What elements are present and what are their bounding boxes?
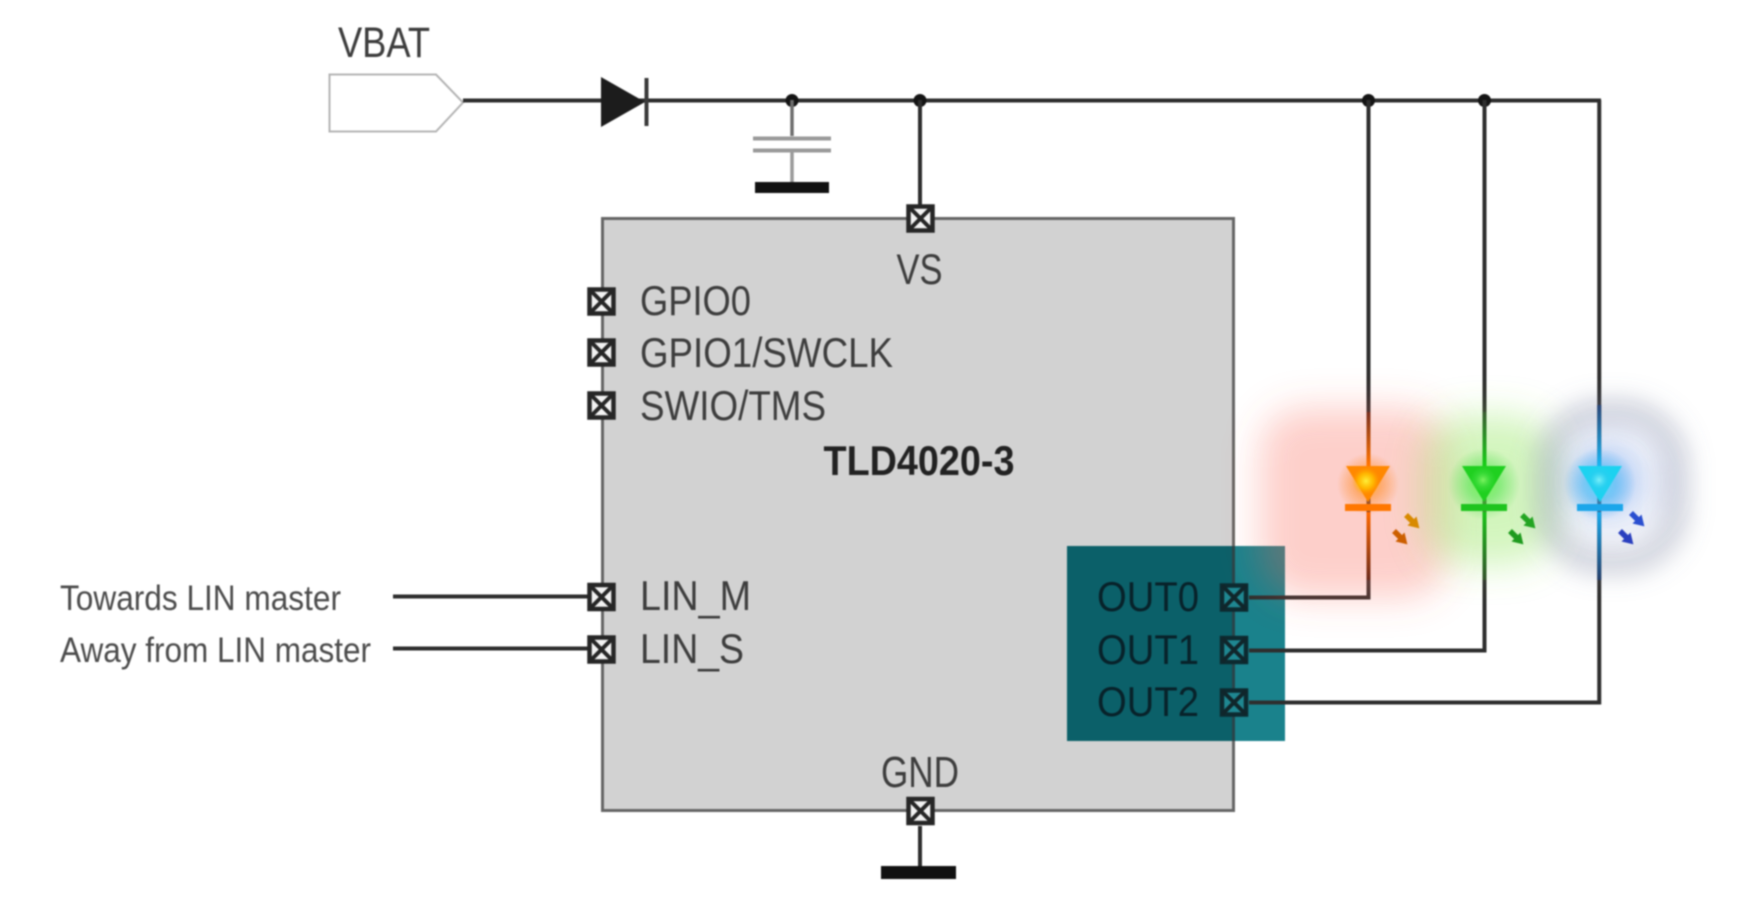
- halo green LED: [1448, 448, 1520, 520]
- glow blue inner wash: [1548, 417, 1676, 545]
- wire: LIN_S lead: [393, 647, 588, 651]
- junction: LED0 tap: [1362, 94, 1375, 107]
- LED D_red cathode bar: [1345, 504, 1391, 511]
- svg-text:OUT1: OUT1: [1097, 626, 1199, 673]
- pin VS: [909, 207, 933, 231]
- ground bar (GND pin): [881, 866, 956, 879]
- LED D_blue triangle: [1578, 466, 1622, 502]
- svg-text:GND: GND: [881, 748, 959, 797]
- LED D_red emission arrow 2: [1390, 527, 1411, 548]
- hot wire above green LED: [1483, 412, 1487, 466]
- OUT highlight box right strip over white: [1235, 546, 1285, 741]
- glow blue center: [1572, 447, 1640, 515]
- hot wire below blue LED: [1597, 512, 1601, 580]
- wire: main VBAT bus: [463, 99, 1601, 103]
- svg-text:VS: VS: [897, 246, 943, 294]
- pin GPIO1/SWCLK: [590, 341, 614, 365]
- glow blue outer ring: [1548, 412, 1676, 562]
- glow red: [1260, 408, 1448, 598]
- pin GPIO0: [590, 290, 614, 314]
- svg-text:LIN_S: LIN_S: [640, 625, 744, 672]
- glow green: [1424, 415, 1554, 565]
- svg-text:OUT2: OUT2: [1097, 678, 1199, 725]
- wire: LIN_M lead: [393, 595, 588, 599]
- pin OUT1: [1222, 638, 1246, 662]
- LED D_red hot center: [1352, 467, 1380, 495]
- svg-text:LIN_M: LIN_M: [640, 572, 751, 619]
- LED D_green cathode bar: [1461, 504, 1507, 511]
- pin LIN_M: [590, 585, 614, 609]
- LED D_blue emission arrow 2: [1616, 527, 1637, 548]
- diode D1 cathode bar: [645, 78, 649, 126]
- ground bar (capacitor): [755, 182, 829, 193]
- junction: VS tap: [914, 94, 927, 107]
- LED D_red emission arrow 1: [1402, 511, 1423, 532]
- LED D_green hot center: [1470, 467, 1496, 493]
- wire: capacitor stub lower: [790, 152, 794, 182]
- hot wire below green LED: [1483, 512, 1487, 580]
- hot wire below red LED: [1367, 512, 1371, 580]
- pin OUT0: [1222, 586, 1246, 610]
- junction: capacitor tap: [786, 94, 799, 107]
- hot wire above blue LED: [1597, 405, 1601, 466]
- IC right border segment crossing teal box: [1232, 546, 1235, 741]
- LED D_blue cathode bar: [1577, 504, 1623, 511]
- svg-text:TLD4020-3: TLD4020-3: [824, 437, 1015, 484]
- junction: LED1 tap: [1478, 94, 1491, 107]
- svg-text:Away from LIN master: Away from LIN master: [60, 631, 371, 670]
- wire: GND branch: [918, 826, 922, 867]
- VBAT flag connector: [330, 75, 464, 132]
- wire: capacitor stub upper: [790, 100, 794, 136]
- LED D_blue hot center: [1585, 466, 1613, 494]
- wire: OUT1 to green LED: [1249, 100, 1485, 651]
- LED D_blue emission arrow 1: [1627, 509, 1648, 530]
- pin OUT2: [1222, 691, 1246, 715]
- svg-text:Towards LIN master: Towards LIN master: [60, 579, 341, 618]
- LED D_red triangle: [1346, 466, 1390, 502]
- hot wire above red LED: [1367, 412, 1371, 466]
- capacitor C1 top plate: [753, 137, 831, 141]
- capacitor C1 bottom plate: [753, 149, 831, 153]
- wire: OUT0 to red LED: [1249, 100, 1369, 598]
- svg-text:GPIO0: GPIO0: [640, 277, 751, 324]
- IC body U1 TLD4020-3: [603, 219, 1234, 811]
- svg-text:SWIO/TMS: SWIO/TMS: [640, 382, 826, 429]
- pin SWIO/TMS: [590, 394, 614, 418]
- svg-text:GPIO1/SWCLK: GPIO1/SWCLK: [640, 329, 893, 376]
- LED D_green emission arrow 1: [1518, 511, 1539, 532]
- halo blue LED: [1564, 448, 1636, 520]
- svg-text:VBAT: VBAT: [338, 19, 430, 67]
- pin LIN_S: [590, 638, 614, 662]
- diode D1 anode triangle: [601, 77, 645, 127]
- LED D_green emission arrow 2: [1506, 527, 1527, 548]
- wire: VS branch: [918, 100, 922, 206]
- halo red LED: [1337, 453, 1399, 515]
- OUT highlight box (teal): [1067, 546, 1285, 741]
- pin GND: [909, 799, 933, 823]
- LED D_green triangle: [1462, 466, 1506, 502]
- wire: OUT2 to blue LED: [1249, 100, 1599, 703]
- svg-text:OUT0: OUT0: [1097, 573, 1199, 620]
